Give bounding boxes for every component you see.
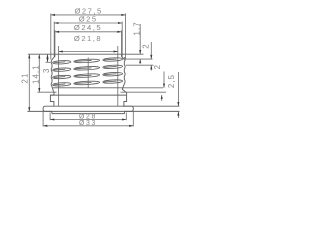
bead left edge bbox=[50, 95, 54, 106]
dim Ø25 bbox=[54, 15, 122, 57]
svg-text:14,1: 14,1 bbox=[32, 64, 41, 84]
flange top extension right bbox=[54, 105, 180, 107]
dim Ø28 bottom bbox=[50, 113, 126, 121]
svg-text:3: 3 bbox=[42, 68, 51, 73]
body right silhouette bbox=[122, 54, 127, 93]
thread turn 4 bbox=[53, 79, 123, 86]
dim Ø33 bottom bbox=[43, 111, 133, 127]
svg-text:21: 21 bbox=[20, 73, 29, 84]
dim Ø21,8 bbox=[59, 34, 118, 53]
bead top line bbox=[50, 94, 126, 96]
below-flange left edge bbox=[51, 111, 53, 113]
below-flange right edge bbox=[124, 111, 126, 113]
thread mid vertical line bbox=[87, 58, 89, 88]
tick thread start right bbox=[126, 58, 153, 60]
svg-text:2: 2 bbox=[153, 64, 162, 69]
dim 2 first right bbox=[142, 42, 153, 71]
thread runout line right (tick) bbox=[121, 91, 167, 93]
body bottom cutoff line bbox=[52, 113, 125, 115]
svg-text:Ø21,8: Ø21,8 bbox=[74, 34, 102, 43]
dim 21 left bbox=[20, 54, 30, 111]
bead right edge bbox=[124, 93, 127, 106]
bore line left (Ø21,8 extension) bbox=[58, 46, 60, 106]
thread turn 2 bbox=[53, 65, 123, 72]
tick thread bottom right bbox=[123, 87, 163, 89]
rim top line with left and right extensions bbox=[28, 53, 144, 55]
thread runout line left (14,1 extension) bbox=[38, 91, 57, 93]
bore line right (Ø21,8 extension) bbox=[117, 46, 119, 106]
dim 14,1 left bbox=[32, 54, 41, 92]
tick first crest bottom right bbox=[126, 64, 154, 66]
thread bottom line bbox=[53, 87, 123, 89]
thread turn 3 bbox=[53, 72, 123, 79]
dim 1,7 right bbox=[133, 21, 142, 63]
dim 2 second right bbox=[153, 64, 165, 101]
svg-text:2,5: 2,5 bbox=[167, 74, 176, 88]
dim Ø24,5 bbox=[55, 23, 122, 54]
flange outline bbox=[43, 106, 133, 111]
svg-text:Ø24,5: Ø24,5 bbox=[74, 23, 102, 32]
flange bottom line with extensions bbox=[28, 110, 180, 112]
dim 3 left bbox=[42, 54, 51, 73]
dim Ø27,5 bbox=[51, 6, 126, 59]
dim 2,5 right bbox=[167, 72, 179, 118]
body left silhouette bbox=[51, 54, 55, 95]
svg-text:2: 2 bbox=[142, 43, 151, 48]
thread turn 1 bbox=[53, 57, 123, 64]
